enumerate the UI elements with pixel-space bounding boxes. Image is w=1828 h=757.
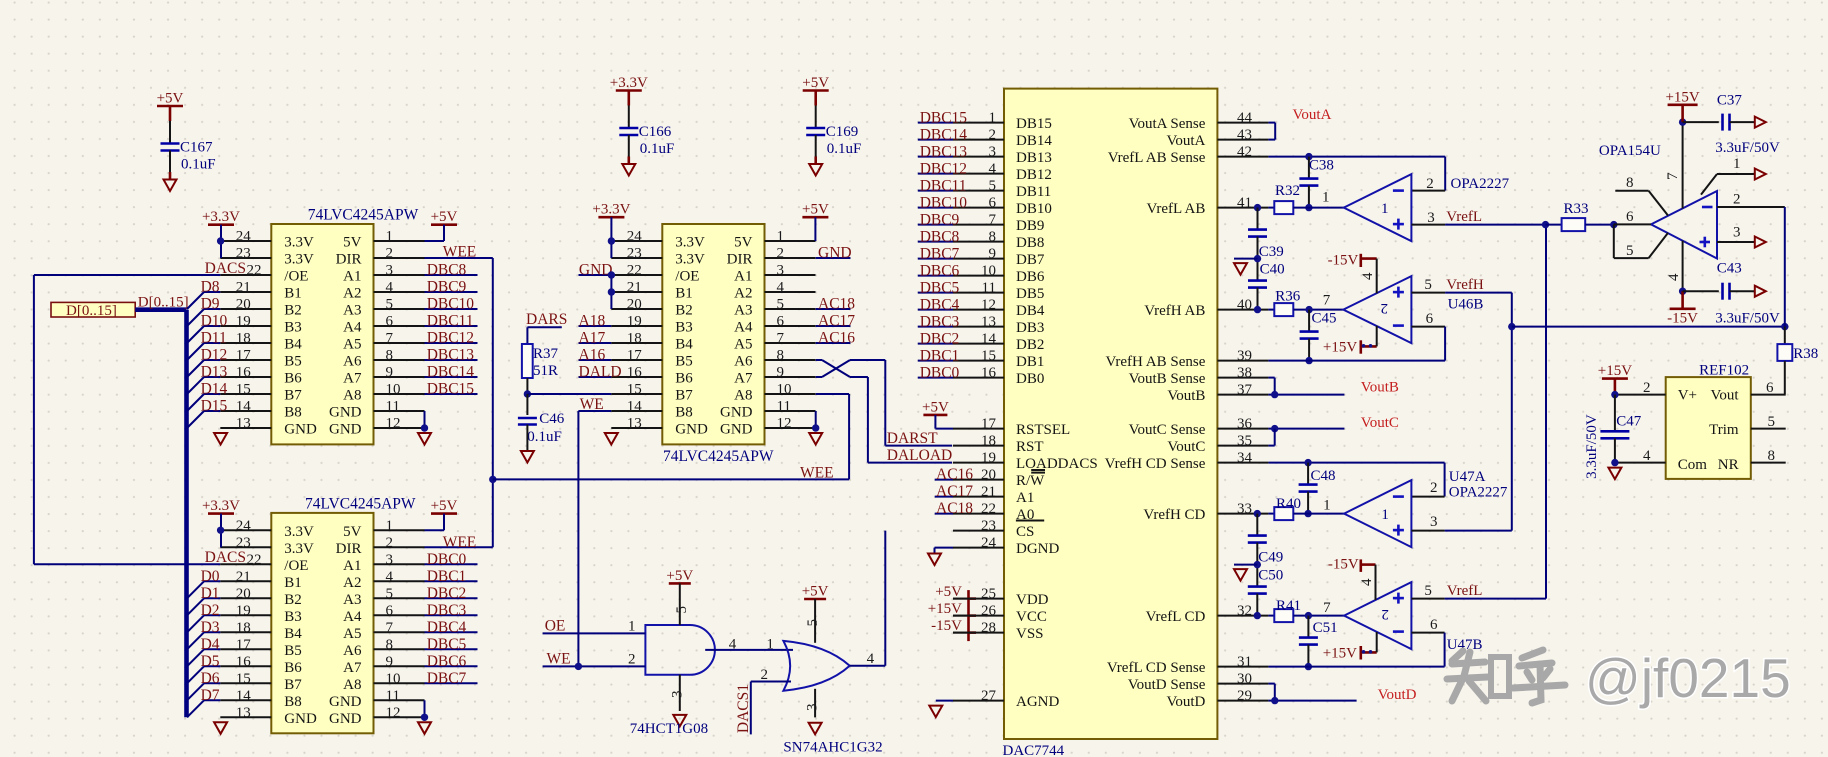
svg-text:U46B: U46B — [1448, 297, 1484, 313]
svg-text:32: 32 — [1237, 603, 1252, 619]
wire op-amp U46B pin 5 VrefH — [1411, 277, 1511, 313]
svg-text:B4: B4 — [284, 337, 302, 353]
svg-text:VoutC Sense: VoutC Sense — [1129, 422, 1206, 438]
svg-text:0.1uF: 0.1uF — [640, 141, 675, 157]
svg-text:DBC12: DBC12 — [920, 160, 967, 177]
wire crossover X at U3 pins 8/9 — [816, 360, 886, 377]
svg-text:2: 2 — [1381, 606, 1389, 622]
svg-text:19: 19 — [981, 450, 996, 466]
svg-text:5: 5 — [989, 178, 997, 194]
capacitor C43 3.3uF/50V — [1683, 260, 1780, 326]
svg-text:R/W: R/W — [1016, 473, 1045, 489]
svg-text:+3.3V: +3.3V — [610, 75, 648, 91]
svg-text:AC16: AC16 — [936, 466, 973, 483]
svg-text:-15V: -15V — [1667, 311, 1698, 327]
wire op-amp U47B pin 5 VrefL — [1411, 225, 1546, 653]
svg-text:15: 15 — [236, 382, 251, 398]
svg-text:DGND: DGND — [1016, 541, 1059, 557]
svg-text:A6: A6 — [734, 354, 753, 370]
svg-text:28: 28 — [981, 620, 996, 636]
svg-text:VoutD: VoutD — [1378, 687, 1417, 703]
svg-text:12: 12 — [981, 297, 996, 313]
svg-text:DB7: DB7 — [1016, 252, 1045, 268]
svg-text:DBC14: DBC14 — [920, 126, 968, 143]
svg-text:3.3V: 3.3V — [675, 252, 705, 268]
ground at AND pin 3 — [670, 675, 687, 727]
svg-text:D15: D15 — [201, 398, 228, 415]
svg-text:A16: A16 — [579, 347, 606, 364]
svg-text:2: 2 — [628, 651, 636, 667]
svg-text:18: 18 — [236, 331, 251, 347]
svg-text:6: 6 — [1626, 209, 1634, 225]
capacitor C38 — [1299, 157, 1334, 212]
svg-text:NR: NR — [1718, 457, 1739, 473]
svg-text:DBC12: DBC12 — [427, 330, 474, 347]
svg-text:D8: D8 — [201, 279, 220, 296]
svg-text:DB9: DB9 — [1016, 218, 1044, 234]
svg-text:DBC7: DBC7 — [920, 245, 960, 262]
ground at U1 pins 11/12 — [418, 411, 431, 445]
svg-text:7: 7 — [1323, 600, 1331, 616]
svg-text:10: 10 — [386, 671, 401, 687]
svg-text:+5V: +5V — [157, 91, 184, 107]
wire R33 to OPA154U output — [1585, 221, 1617, 228]
op-amp U48 OPA154U body — [1651, 191, 1717, 259]
svg-text:74LVC4245APW: 74LVC4245APW — [663, 448, 774, 465]
svg-text:A1: A1 — [734, 269, 752, 285]
IC U4 title — [1003, 743, 1065, 757]
svg-text:C37: C37 — [1717, 92, 1743, 108]
bus entries D0-D7 to U2 — [187, 568, 220, 717]
svg-text:35: 35 — [1237, 433, 1252, 449]
svg-text:GND: GND — [720, 405, 753, 421]
svg-text:+3.3V: +3.3V — [592, 202, 630, 218]
svg-text:11: 11 — [982, 280, 996, 296]
svg-text:1: 1 — [386, 518, 394, 534]
power +5V at AND pin 5 — [666, 568, 693, 625]
svg-text:C39: C39 — [1259, 244, 1284, 260]
power -15V at OPA154U pin 4 — [1666, 241, 1698, 327]
svg-text:-15V: -15V — [1328, 556, 1359, 572]
svg-text:22: 22 — [247, 552, 262, 568]
svg-text:VrefH CD: VrefH CD — [1143, 507, 1205, 523]
svg-text:VoutC: VoutC — [1361, 415, 1399, 431]
svg-text:VrefH AB Sense: VrefH AB Sense — [1105, 354, 1205, 370]
net label DALD at U3 — [579, 364, 622, 381]
svg-text:6: 6 — [1766, 380, 1774, 396]
svg-text:A2: A2 — [343, 575, 361, 591]
svg-text:A4: A4 — [343, 320, 362, 336]
svg-text:A8: A8 — [734, 388, 752, 404]
power +15V at OPA154U pin 7 — [1665, 89, 1700, 208]
svg-text:51R: 51R — [533, 363, 558, 379]
svg-text:3: 3 — [777, 263, 785, 279]
svg-text:1: 1 — [777, 229, 785, 245]
svg-text:REF102: REF102 — [1699, 363, 1749, 379]
svg-text:GND: GND — [329, 694, 362, 710]
svg-text:2: 2 — [1430, 480, 1438, 496]
svg-text:VoutC: VoutC — [1167, 439, 1205, 455]
svg-text:4: 4 — [386, 569, 394, 585]
pin 8 stub of OPA154U — [1615, 175, 1668, 216]
svg-text:DBC3: DBC3 — [427, 602, 467, 619]
IC U2 pins — [220, 530, 424, 717]
svg-text:RST: RST — [1016, 439, 1044, 455]
svg-text:WEE: WEE — [443, 534, 477, 551]
capacitor C37 3.3uF/50V — [1683, 92, 1780, 155]
svg-text:WEE: WEE — [800, 464, 834, 481]
svg-text:1: 1 — [1381, 507, 1389, 523]
power +15V at U47B pin 8 — [1323, 632, 1377, 661]
ground AGND at U4 pin 27 — [929, 701, 953, 718]
net VoutA at U4 pins 44/43 — [1268, 107, 1331, 139]
svg-text:5: 5 — [1424, 583, 1432, 599]
svg-text:17: 17 — [981, 416, 997, 432]
svg-text:B6: B6 — [284, 660, 302, 676]
svg-text:7: 7 — [989, 212, 997, 228]
svg-text:C47: C47 — [1616, 414, 1642, 430]
svg-text:A3: A3 — [343, 592, 361, 608]
op-amp U47B OPA2227 — [1344, 582, 1411, 649]
svg-text:C49: C49 — [1258, 550, 1283, 566]
svg-text:16: 16 — [236, 365, 252, 381]
wire OPA154U pin 2 to VrefH node — [1717, 191, 1785, 326]
svg-text:B1: B1 — [284, 575, 302, 591]
svg-text:2: 2 — [1733, 191, 1741, 207]
svg-text:DB8: DB8 — [1016, 235, 1044, 251]
svg-text:DBC2: DBC2 — [427, 585, 467, 602]
svg-text:B6: B6 — [284, 371, 302, 387]
ground at U3 pins 11/12 — [809, 411, 822, 445]
IC U4 right pin numbers — [1237, 110, 1253, 704]
svg-text:5: 5 — [386, 586, 394, 602]
svg-text:21: 21 — [981, 484, 996, 500]
svg-text:GND: GND — [720, 422, 753, 438]
svg-text:27: 27 — [981, 688, 997, 704]
svg-text:6: 6 — [1430, 617, 1438, 633]
net DACS1 into OR pin 2 — [735, 667, 791, 734]
svg-text:4: 4 — [1359, 578, 1375, 586]
label 74HCT1G08 — [630, 721, 708, 737]
svg-text:A7: A7 — [734, 371, 753, 387]
svg-text:DB6: DB6 — [1016, 269, 1045, 285]
svg-text:B4: B4 — [284, 626, 302, 642]
svg-text:12: 12 — [777, 416, 792, 432]
svg-text:19: 19 — [627, 314, 642, 330]
svg-text:DAC7744: DAC7744 — [1003, 743, 1065, 757]
svg-text:4: 4 — [729, 637, 737, 653]
svg-text:WEE: WEE — [443, 244, 477, 261]
svg-text:B2: B2 — [284, 303, 302, 319]
svg-text:18: 18 — [627, 331, 642, 347]
svg-text:A8: A8 — [343, 388, 361, 404]
svg-text:B5: B5 — [284, 354, 302, 370]
svg-text:13: 13 — [627, 416, 642, 432]
svg-text:3: 3 — [805, 704, 821, 712]
svg-text:3.3uF/50V: 3.3uF/50V — [1715, 140, 1780, 156]
net label AC17 at U3 right — [816, 313, 856, 330]
svg-text:2: 2 — [989, 127, 997, 143]
svg-text:A3: A3 — [734, 303, 752, 319]
net VoutB at U4 pins 38/37 — [1268, 378, 1398, 399]
svg-text:43: 43 — [1237, 127, 1252, 143]
svg-text:1: 1 — [766, 637, 774, 653]
power +5V at U2 pin 1 — [425, 498, 458, 530]
svg-text:4: 4 — [867, 651, 875, 667]
svg-text:2: 2 — [1381, 300, 1389, 316]
power -15V at U46B pin 4 — [1328, 253, 1377, 294]
svg-text:3: 3 — [670, 691, 686, 699]
svg-text:+15V: +15V — [1598, 363, 1632, 379]
wire R36 to op-amp U46B output — [1293, 293, 1343, 314]
power +3.3V at U3 pins 24/23 — [592, 202, 630, 258]
svg-text:VoutA: VoutA — [1166, 133, 1205, 149]
svg-text:3.3V: 3.3V — [284, 235, 314, 251]
svg-text:VrefH AB: VrefH AB — [1144, 303, 1205, 319]
net DARST wire to DAC pin 18 — [885, 360, 952, 447]
svg-text:DB5: DB5 — [1016, 286, 1044, 302]
svg-text:DBC10: DBC10 — [427, 296, 475, 313]
svg-text:Com: Com — [1678, 457, 1708, 473]
svg-text:OPA2227: OPA2227 — [1451, 176, 1510, 192]
op-amp U46B OPA2227 — [1343, 276, 1411, 343]
svg-text:4: 4 — [386, 280, 394, 296]
svg-text:D0: D0 — [201, 568, 220, 585]
svg-text:+5V: +5V — [666, 568, 693, 584]
svg-text:22: 22 — [247, 263, 262, 279]
svg-text:D9: D9 — [201, 296, 220, 313]
svg-text:21: 21 — [627, 280, 642, 296]
wire R41 to op-amp U47B output — [1293, 600, 1344, 619]
svg-text:4: 4 — [777, 280, 785, 296]
capacitor C51 — [1299, 616, 1338, 671]
wire OPA154U pins 6 and 5 tied — [1614, 209, 1668, 259]
svg-text:B7: B7 — [284, 677, 302, 693]
svg-text:26: 26 — [981, 603, 997, 619]
svg-text:B8: B8 — [284, 405, 302, 421]
svg-text:+5V: +5V — [935, 584, 962, 600]
IC U1 title — [308, 207, 419, 224]
wire op-amp U46A pin 3 VrefL — [1411, 209, 1545, 226]
svg-text:SN74AHC1G32: SN74AHC1G32 — [783, 739, 882, 755]
svg-text:5: 5 — [1626, 243, 1634, 259]
svg-text:DARST: DARST — [887, 430, 938, 447]
svg-text:24: 24 — [627, 229, 643, 245]
svg-text:-15V: -15V — [1328, 253, 1359, 269]
wire R32 to op-amp U46A output — [1293, 190, 1344, 208]
REF102 pins — [1615, 380, 1786, 464]
IC U49 REF102 body — [1666, 377, 1751, 479]
svg-text:2: 2 — [1426, 176, 1434, 192]
svg-text:2: 2 — [761, 667, 769, 683]
svg-text:Trim: Trim — [1709, 422, 1739, 438]
svg-text:20: 20 — [627, 297, 642, 313]
svg-text:21: 21 — [236, 280, 251, 296]
svg-text:-15V: -15V — [931, 618, 962, 634]
svg-text:A7: A7 — [343, 660, 362, 676]
svg-text:A18: A18 — [579, 313, 606, 330]
svg-text:6: 6 — [386, 603, 394, 619]
svg-text:D3: D3 — [201, 619, 220, 636]
net label A17 at U3 — [579, 330, 612, 347]
svg-text:DBC9: DBC9 — [427, 279, 467, 296]
svg-text:0.1uF: 0.1uF — [527, 429, 562, 445]
label OPA2227 for U46A — [1451, 176, 1510, 192]
svg-text:D5: D5 — [201, 653, 220, 670]
svg-text:DBC11: DBC11 — [920, 177, 967, 194]
svg-text:3: 3 — [1430, 514, 1438, 530]
svg-text:VrefL AB Sense: VrefL AB Sense — [1108, 150, 1206, 166]
svg-text:DB1: DB1 — [1016, 354, 1044, 370]
svg-text:9: 9 — [386, 365, 394, 381]
svg-text:DALD: DALD — [579, 364, 622, 381]
wire VrefL AB Sense to op-amp U46A pin 2 — [1268, 153, 1445, 192]
wire VrefH AB at U4 pin 40 — [1254, 306, 1275, 313]
IC U1 pins — [220, 241, 424, 428]
svg-text:+5V: +5V — [431, 209, 458, 225]
svg-text:23: 23 — [981, 518, 996, 534]
IC U4 left pin names — [1016, 116, 1098, 710]
svg-text:Vout: Vout — [1711, 388, 1740, 404]
svg-text:20: 20 — [981, 467, 996, 483]
wire VrefL AB at U4 pin 41 — [1254, 204, 1275, 211]
pin 1 stub of OPA154U — [1701, 156, 1766, 195]
svg-text:VCC: VCC — [1016, 609, 1047, 625]
svg-text:8: 8 — [1626, 175, 1634, 191]
svg-text:VoutB: VoutB — [1167, 388, 1205, 404]
node VrefL junction — [1542, 221, 1562, 228]
capacitor C45 — [1300, 310, 1337, 365]
ground at OR pin 3 — [805, 689, 822, 734]
IC U3 pins — [611, 241, 815, 428]
IC U4 left pins — [953, 123, 1004, 701]
svg-text:LOADDACS: LOADDACS — [1016, 456, 1098, 472]
label U47A OPA2227 — [1449, 469, 1508, 501]
svg-text:18: 18 — [981, 433, 996, 449]
svg-text:DB3: DB3 — [1016, 320, 1044, 336]
wire op-amp U47B pin 6 feedback — [1411, 617, 1444, 666]
svg-text:DACS: DACS — [205, 260, 246, 277]
svg-text:23: 23 — [236, 535, 251, 551]
IC U3 74LVC4245APW body — [662, 224, 764, 444]
svg-text:D12: D12 — [201, 347, 228, 364]
svg-text:C38: C38 — [1309, 158, 1334, 174]
svg-text:19: 19 — [236, 603, 251, 619]
svg-text:6: 6 — [989, 195, 997, 211]
ground at U2 pin 13 — [214, 722, 227, 734]
svg-text:VoutA Sense: VoutA Sense — [1129, 116, 1206, 132]
svg-text:VrefL: VrefL — [1446, 209, 1482, 225]
svg-text:DBC10: DBC10 — [920, 194, 968, 211]
svg-text:8: 8 — [386, 637, 394, 653]
svg-text:20: 20 — [236, 297, 251, 313]
svg-text:A1: A1 — [1016, 490, 1034, 506]
svg-text:3: 3 — [989, 144, 997, 160]
net DALOAD wire to DAC pin 19 — [868, 377, 952, 464]
net VrefH vertical and horizontal distribution — [1445, 293, 1789, 531]
svg-text:+5V: +5V — [802, 584, 829, 600]
net label AC18 at U3 right — [816, 296, 856, 313]
capacitor C47 3.3uF/50V with ground — [1584, 395, 1642, 480]
svg-text:B7: B7 — [284, 388, 302, 404]
svg-text:30: 30 — [1237, 671, 1252, 687]
net WE vertical from U3 pin 14 to AND gate — [578, 396, 611, 666]
op-amp U46A OPA2227 — [1344, 174, 1412, 241]
svg-text:3: 3 — [386, 263, 394, 279]
svg-text:A4: A4 — [734, 320, 753, 336]
svg-text:DB11: DB11 — [1016, 184, 1051, 200]
bus label box D[0..15] — [51, 302, 135, 318]
svg-text:8: 8 — [777, 348, 785, 364]
svg-text:2: 2 — [1643, 380, 1651, 396]
wire VrefH CD Sense to op-amp U47A pin 2 — [1268, 459, 1444, 497]
svg-text:DB10: DB10 — [1016, 201, 1052, 217]
svg-text:16: 16 — [236, 654, 252, 670]
svg-text:15: 15 — [627, 382, 642, 398]
resistor R36 — [1274, 289, 1300, 317]
svg-text:DALOAD: DALOAD — [887, 447, 952, 464]
svg-text:11: 11 — [777, 399, 791, 415]
svg-text:DBC0: DBC0 — [427, 551, 467, 568]
svg-text:D4: D4 — [201, 636, 220, 653]
capacitors C49 and C50 with ground tap — [1234, 514, 1283, 616]
svg-text:DBC8: DBC8 — [427, 262, 467, 279]
svg-text:5: 5 — [386, 297, 394, 313]
svg-text:RSTSEL: RSTSEL — [1016, 422, 1070, 438]
svg-text:GND: GND — [329, 405, 362, 421]
svg-text:/OE: /OE — [675, 269, 699, 285]
svg-text:DBC13: DBC13 — [427, 347, 475, 364]
svg-text:15: 15 — [981, 348, 996, 364]
svg-text:DBC0: DBC0 — [920, 364, 960, 381]
svg-text:7: 7 — [777, 331, 785, 347]
svg-text:GND: GND — [818, 245, 852, 262]
svg-text:14: 14 — [627, 399, 643, 415]
svg-text:DBC1: DBC1 — [427, 568, 467, 585]
svg-text:A8: A8 — [343, 677, 361, 693]
svg-text:B6: B6 — [675, 371, 693, 387]
svg-text:18: 18 — [236, 620, 251, 636]
svg-text:D2: D2 — [201, 602, 220, 619]
svg-text:DB4: DB4 — [1016, 303, 1045, 319]
AND gate 74HCT1G08 body — [645, 625, 715, 675]
svg-text:B7: B7 — [675, 388, 693, 404]
ground DGND at U4 pin 24 — [928, 548, 953, 565]
svg-text:B2: B2 — [284, 592, 302, 608]
svg-text:9: 9 — [777, 365, 785, 381]
IC U4 right pin names — [1105, 116, 1206, 710]
net label AC17 at U4 — [935, 483, 974, 500]
wire OR output pin 4 to DAC CS — [850, 531, 886, 667]
svg-text:GND: GND — [284, 711, 317, 727]
power +5V at OR pin 5 — [802, 584, 829, 643]
op-amp U47A OPA2227 — [1344, 480, 1411, 547]
svg-text:13: 13 — [981, 314, 996, 330]
svg-text:U47A: U47A — [1449, 469, 1486, 485]
svg-text:10: 10 — [981, 263, 996, 279]
svg-text:1: 1 — [628, 618, 636, 634]
svg-text:24: 24 — [236, 518, 252, 534]
svg-text:40: 40 — [1237, 297, 1252, 313]
svg-text:37: 37 — [1237, 382, 1253, 398]
svg-text:GND: GND — [329, 422, 362, 438]
svg-text:3: 3 — [1427, 210, 1435, 226]
svg-text:D[0..15]: D[0..15] — [138, 295, 189, 311]
svg-text:23: 23 — [627, 246, 642, 262]
svg-text:12: 12 — [386, 416, 401, 432]
svg-text:31: 31 — [1237, 654, 1252, 670]
label SN74AHC1G32 — [783, 739, 882, 755]
